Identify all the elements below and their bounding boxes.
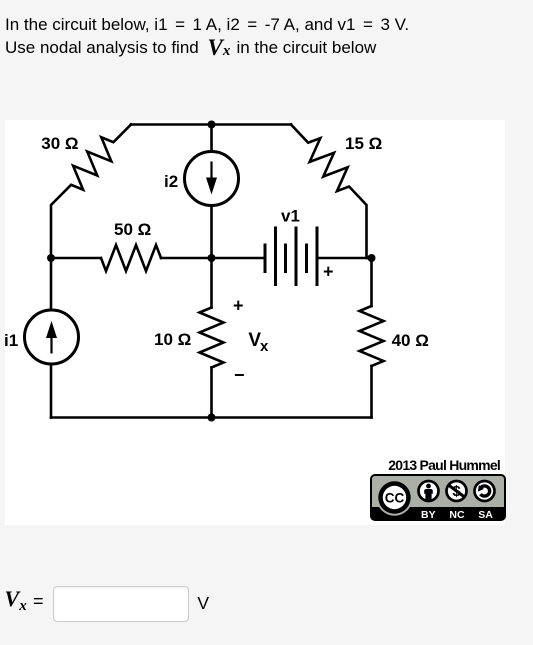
wire i1 to bottom rail: [50, 364, 53, 418]
CC logo: [376, 479, 412, 515]
resistor R15 15ohm diagonal: [291, 125, 367, 259]
wire bottom rail: [51, 416, 372, 419]
battery v1 long plate 2: [295, 228, 298, 285]
wire left node down to i1: [50, 258, 53, 310]
svg-text:30 Ω: 30 Ω: [41, 134, 78, 153]
attribution text: [388, 457, 500, 473]
arrow i2 (down): [210, 162, 212, 184]
node dot left: [47, 254, 55, 262]
wire right node to R40: [370, 258, 373, 306]
battery v1 short plate 3: [305, 245, 308, 272]
current source i2: [185, 152, 239, 206]
CC license badge: [370, 474, 506, 521]
node dot center: [208, 254, 216, 262]
wire R50 to center node: [161, 257, 265, 260]
svg-text:15 Ω: 15 Ω: [345, 134, 382, 153]
wire battery to right node: [317, 257, 372, 260]
resistor R10 10ohm vertical: [200, 308, 224, 368]
svg-text:+: +: [233, 296, 244, 316]
NC icon: [447, 481, 467, 501]
resistor R30 30ohm diagonal: [51, 125, 131, 259]
badge black strip: [372, 507, 504, 520]
svg-text:x: x: [260, 338, 269, 355]
badge letters: [421, 509, 493, 521]
svg-text:i1: i1: [5, 331, 18, 350]
svg-text:v1: v1: [281, 206, 300, 225]
wire center node to R10: [210, 258, 213, 308]
battery v1 short plate 2: [284, 245, 287, 272]
SA icon: [475, 481, 495, 501]
badge plate: [371, 475, 505, 520]
svg-text:i2: i2: [164, 172, 178, 191]
svg-text:10 Ω: 10 Ω: [154, 330, 191, 349]
resistor R40 40ohm vertical: [360, 306, 384, 366]
battery v1 short plate 1: [264, 245, 267, 272]
node dot top: [208, 121, 216, 129]
svg-text:−: −: [234, 365, 245, 385]
wire i2 top: [210, 125, 213, 152]
resistor R50 50ohm horizontal: [101, 245, 161, 271]
svg-text:CC: CC: [385, 490, 405, 505]
wire left node to R50: [51, 257, 101, 260]
svg-text:BY: BY: [421, 509, 436, 521]
BY icon: [419, 481, 439, 501]
wire i2 bottom: [210, 206, 213, 259]
node dot right: [368, 254, 376, 262]
svg-text:SA: SA: [478, 509, 493, 521]
wire R40 to bottom rail: [370, 366, 373, 418]
svg-text:NC: NC: [449, 509, 465, 521]
answer input box: [53, 586, 189, 622]
wire top horizontal: [131, 123, 291, 126]
node dot bottom: [208, 414, 216, 422]
svg-text:+: +: [323, 262, 334, 282]
wire R10 to bottom rail: [210, 368, 213, 418]
svg-text:40 Ω: 40 Ω: [392, 331, 429, 350]
arrow i1 (up): [50, 332, 52, 354]
svg-text:50 Ω: 50 Ω: [114, 220, 151, 239]
current source i1: [25, 310, 79, 364]
battery v1 long plate 1: [274, 228, 277, 285]
battery v1 long plate 3: [316, 228, 319, 285]
